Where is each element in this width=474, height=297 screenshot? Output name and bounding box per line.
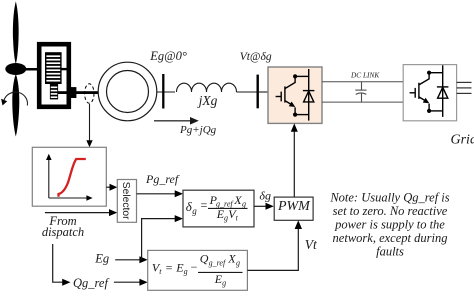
svg-text:=: = <box>165 260 173 274</box>
IGBT U1 with antiparallel diode <box>276 69 315 121</box>
red power curve <box>59 159 86 197</box>
fraction bar <box>208 207 248 209</box>
wire: Qg_ref to Vt equation <box>114 281 140 283</box>
converter 1 (machine side) box <box>268 67 322 123</box>
DC link bottom rail <box>322 101 403 103</box>
IGBT U2 with antiparallel diode <box>410 65 449 117</box>
wire: dispatch down to Qg_ref <box>53 244 63 282</box>
svg-text:Q: Q <box>200 251 209 265</box>
svg-text:dispatch: dispatch <box>42 225 84 239</box>
svg-text:Grid: Grid <box>451 133 474 148</box>
bus bar 2 <box>257 75 259 109</box>
wire: Eg to Vt equation <box>115 259 140 261</box>
high-speed shaft <box>58 91 100 94</box>
curve y-axis <box>48 158 50 198</box>
wire: selector to delta equation (Pg_ref) <box>137 193 176 195</box>
svg-text:Qg_ref: Qg_ref <box>73 276 109 290</box>
svg-text:Eg: Eg <box>94 252 109 266</box>
bus bar 1 <box>162 74 164 109</box>
low-speed shaft <box>24 68 46 71</box>
svg-text:Vt@δg: Vt@δg <box>240 51 272 63</box>
fraction bar <box>198 271 243 273</box>
Vt equation text <box>152 251 240 287</box>
svg-text:g: g <box>236 258 240 267</box>
svg-text:Vt: Vt <box>305 237 318 252</box>
wire: PWM up to converter 1 <box>293 130 295 197</box>
wire: delta to PWM <box>254 205 266 207</box>
svg-text:g: g <box>192 206 197 216</box>
DC link top rail <box>322 81 403 83</box>
svg-text:Selector: Selector <box>120 182 131 220</box>
wind turbine hub <box>5 63 26 75</box>
grid 3-phase lines <box>457 82 472 93</box>
DC link capacitor <box>355 82 366 102</box>
svg-text:=: = <box>200 198 208 212</box>
note text <box>329 191 449 259</box>
inductor jXg <box>177 83 237 92</box>
wire: bus 2 to converter <box>258 91 268 93</box>
wind turbine bottom blade <box>12 74 19 137</box>
svg-text:Note: Usually Qg_ref is: Note: Usually Qg_ref is <box>329 191 449 205</box>
gearbox gear stack (small) <box>50 84 58 99</box>
gearbox body <box>39 44 69 107</box>
wire: inductor to bus 2 <box>237 91 258 93</box>
svg-text:g: g <box>184 267 188 276</box>
converter 2 (grid side) box <box>403 65 456 121</box>
svg-text:g: g <box>242 199 246 208</box>
svg-text:g_ref: g_ref <box>209 258 227 267</box>
svg-text:X: X <box>227 251 236 265</box>
svg-text:g: g <box>222 278 226 287</box>
delta_g equation box <box>183 190 254 227</box>
selector box <box>117 180 136 223</box>
svg-text:Eg@0°: Eg@0° <box>149 49 187 63</box>
wire: Vt equation to PWM <box>247 229 298 270</box>
svg-text:Pg_ref: Pg_ref <box>145 172 180 186</box>
rotation arrow arc <box>4 92 27 105</box>
gearbox output coupling block <box>70 87 77 98</box>
wind turbine top blade <box>13 2 19 65</box>
wire: Eg branch up to delta equation <box>142 219 175 260</box>
wire: generator to bus 1 <box>157 91 175 93</box>
generator inner circle <box>107 71 149 113</box>
speed sensing point (dashed ellipse) <box>85 84 94 103</box>
svg-text:faults: faults <box>376 245 404 259</box>
svg-text:set to zero. No reactive: set to zero. No reactive <box>333 204 448 218</box>
power flow arrow Pg+jQg <box>154 120 192 122</box>
curve x-axis <box>49 197 87 199</box>
Vt equation box <box>148 250 248 290</box>
svg-text:−: − <box>190 260 198 274</box>
wire: from dispatch to selector <box>45 212 109 214</box>
svg-text:DC LINK: DC LINK <box>350 70 380 79</box>
wire: speed signal down to curve box <box>89 104 91 141</box>
generator G outer circle <box>98 62 157 121</box>
gearbox internal link bar <box>61 68 67 70</box>
power curve box <box>32 147 106 206</box>
svg-text:Pg+jQg: Pg+jQg <box>179 124 217 136</box>
svg-text:δg: δg <box>259 188 271 202</box>
svg-text:power is supply to the: power is supply to the <box>334 218 445 232</box>
PWM box <box>274 197 313 220</box>
delta_g equation text <box>186 193 246 223</box>
wire: curve box to selector <box>106 186 111 188</box>
gearbox gear stack (large) <box>45 52 62 84</box>
svg-text:network, except during: network, except during <box>333 231 448 245</box>
svg-text:jXg: jXg <box>197 93 218 108</box>
svg-text:PWM: PWM <box>277 199 311 214</box>
svg-text:X: X <box>233 193 242 207</box>
